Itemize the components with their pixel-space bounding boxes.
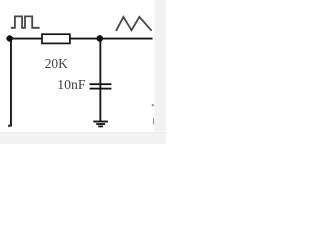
resistor R (20K) body [42,34,70,43]
capacitor C (10nF) top plate [90,83,112,85]
capacitor C (10nF) bottom plate [90,88,112,90]
svg-text:10nF: 10nF [57,77,86,92]
page background [0,0,166,144]
faint artifact dot right margin [152,104,154,106]
node dot: left junction [7,35,13,41]
wire: left vertical branch [10,38,12,126]
wire: main horizontal net [6,38,152,40]
bottom margin gray strip [0,134,166,144]
wire end nub bottom-left [8,124,12,127]
triangle-wave output symbol [116,17,152,31]
svg-text:20K: 20K [45,56,68,71]
ground bar 2 [96,123,105,125]
right margin gray strip [156,0,166,144]
faint boundary line above bottom strip [0,131,166,134]
wire: right vertical branch (node to capacitor to ground) [99,38,101,121]
ground bar 3 [98,126,103,128]
ground bar 1 [93,121,108,123]
square-wave input symbol [11,16,40,27]
node dot: right junction [97,35,104,42]
faint artifact dash right margin [153,118,154,124]
